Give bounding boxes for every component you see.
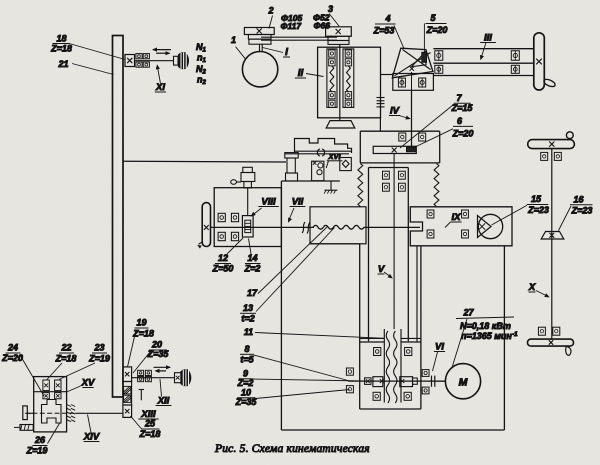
worm box: [310, 207, 366, 244]
gear pair 23: [55, 380, 61, 391]
svg-text:Z=15: Z=15: [451, 103, 474, 113]
gearbox mid line: [34, 391, 67, 393]
gear 6: [407, 147, 417, 152]
stem pulley 1: [259, 44, 261, 52]
slide 7: [373, 146, 416, 153]
foot shaft I: [326, 121, 355, 128]
leader 15: [492, 205, 527, 225]
frame: [280, 181, 282, 430]
cone 5 small: [412, 51, 427, 67]
svg-text:Z=53: Z=53: [373, 26, 395, 36]
leader XIV: [88, 415, 92, 433]
pedestal: [285, 153, 298, 158]
bearing pair XI: [136, 54, 142, 59]
shaft VII: [211, 226, 315, 228]
shaft X: [551, 149, 553, 340]
svg-text:M: M: [459, 376, 468, 388]
gear cluster XIII: [123, 382, 132, 406]
leader 13: [256, 228, 335, 312]
leader 2: [269, 16, 273, 29]
pulley 1: [242, 51, 277, 86]
bearings motor side: [422, 370, 429, 377]
spindle walls: [383, 329, 385, 403]
svg-text:Z=20: Z=20: [426, 25, 448, 35]
leader 21: [72, 64, 114, 75]
leader 27: [453, 319, 468, 366]
gear box XIII top: [123, 367, 132, 382]
svg-text:V: V: [378, 264, 385, 275]
cam base: [285, 153, 349, 155]
bearings IX: [427, 210, 434, 218]
svg-text:I: I: [285, 47, 288, 58]
svg-text:25: 25: [144, 419, 156, 429]
leader 4: [394, 26, 404, 49]
bearings XII: [138, 370, 144, 375]
svg-text:Z=35: Z=35: [147, 349, 170, 359]
bearings feed left: [346, 368, 353, 375]
spring left: [358, 164, 363, 207]
gear 9 box: [365, 378, 371, 385]
ground: [325, 189, 338, 191]
bearings X top: [541, 152, 548, 160]
bevel gear 15: [478, 214, 502, 238]
shaft III rails: [433, 48, 533, 50]
svg-text:XV: XV: [81, 378, 95, 389]
leader 10: [256, 390, 350, 399]
arrows XI: [153, 49, 171, 51]
stop block: [20, 425, 33, 431]
svg-text:Z=19: Z=19: [88, 354, 110, 364]
link rod: [123, 160, 286, 163]
leader VII: [289, 208, 295, 221]
shaft VIII: [247, 188, 249, 216]
shaft I: [339, 44, 341, 120]
svg-text:VIII: VIII: [261, 197, 276, 208]
svg-text:Z=20: Z=20: [1, 353, 23, 363]
svg-text:Φ117: Φ117: [281, 21, 303, 31]
gear box XI: [125, 55, 135, 67]
svg-text:XII: XII: [157, 396, 170, 407]
svg-text:4: 4: [384, 14, 390, 24]
svg-text:N=0,18 кВт: N=0,18 кВт: [460, 321, 511, 331]
capsule III: [534, 33, 545, 90]
bearing box cone: [393, 74, 434, 91]
svg-text:27: 27: [462, 308, 474, 318]
bracket 2: [244, 28, 274, 35]
leader X: [536, 291, 548, 297]
svg-text:24: 24: [7, 343, 18, 353]
svg-text:21: 21: [57, 59, 68, 69]
handle III: [543, 78, 556, 88]
svg-text:Z=2: Z=2: [237, 378, 254, 388]
link II cone: [380, 74, 392, 76]
lever arm: [236, 181, 241, 183]
shaft XI: [135, 60, 175, 62]
lever bar 21: [113, 36, 124, 398]
leader 18: [71, 44, 125, 60]
bearings spindle: [374, 348, 381, 356]
svg-text:11: 11: [244, 327, 253, 337]
bearings V: [383, 171, 390, 179]
mech base: [281, 180, 339, 182]
shaft XIV axis: [25, 412, 74, 414]
svg-text:XI: XI: [155, 82, 165, 93]
gear box VIII: [214, 188, 281, 247]
bracket 3: [326, 27, 352, 37]
leader 23: [59, 363, 95, 380]
svg-text:1: 1: [231, 35, 236, 45]
leader 22: [47, 363, 62, 380]
motor shaft: [438, 380, 446, 382]
clutch II: [377, 97, 385, 99]
svg-text:23: 23: [93, 343, 104, 353]
cam plate: [295, 139, 352, 154]
handle XIV: [23, 406, 28, 420]
capsule X bottom: [528, 339, 574, 346]
svg-text:Z=2: Z=2: [244, 264, 261, 274]
svg-text:t=5: t=5: [240, 355, 254, 365]
column inner wall: [416, 246, 418, 342]
svg-text:8: 8: [244, 344, 249, 354]
svg-text:IV: IV: [390, 106, 400, 117]
column II right: [343, 49, 354, 108]
clutch rod: [379, 118, 381, 131]
leader 12: [227, 238, 243, 254]
motor M: [445, 364, 480, 399]
leader VIII: [252, 208, 262, 216]
housing 7: [360, 130, 439, 132]
svg-text:12: 12: [218, 253, 228, 263]
leader XV: [67, 386, 81, 392]
svg-text:22: 22: [60, 343, 71, 353]
ratchet box: [312, 161, 324, 181]
gear box XIII bottom: [123, 405, 132, 417]
svg-text:Z=18: Z=18: [50, 43, 72, 53]
svg-text:VI: VI: [435, 342, 444, 353]
svg-text:Z=18: Z=18: [55, 354, 77, 364]
gear box XV: [34, 377, 67, 432]
svg-text:13: 13: [243, 303, 253, 313]
leader VI: [433, 352, 438, 371]
feed shaft 8: [348, 380, 445, 382]
bearings II: [329, 50, 335, 57]
column II left: [327, 49, 337, 108]
leader V: [384, 272, 392, 278]
svg-text:п=1365 мин-1: п=1365 мин-1: [461, 331, 518, 341]
leader 24: [20, 355, 44, 396]
cone 4: [392, 48, 433, 78]
clutch XVI: [318, 149, 325, 156]
leader III: [481, 43, 486, 59]
svg-text:Z=19: Z=19: [26, 446, 48, 456]
coupling stub: [413, 378, 418, 384]
leader XII: [160, 379, 162, 397]
leader 19: [128, 330, 137, 367]
leader 14: [249, 239, 252, 255]
capsule VII: [202, 203, 210, 247]
svg-text:Z=23: Z=23: [571, 206, 593, 216]
spring right: [434, 164, 439, 207]
leader 8: [254, 355, 348, 381]
gear teeth XIV: [67, 405, 71, 407]
svg-text:XIV: XIV: [83, 432, 100, 443]
pawl: [326, 161, 328, 169]
tappet: [243, 167, 253, 172]
svg-text:20: 20: [151, 340, 162, 350]
knob XII: [175, 373, 182, 383]
svg-text:17: 17: [247, 288, 258, 298]
arrows XII: [154, 366, 171, 368]
leader II: [306, 74, 324, 77]
gear 16: [541, 232, 564, 240]
bearings X bottom: [538, 327, 545, 335]
shaft V: [393, 154, 395, 330]
coupling VI: [431, 376, 433, 387]
svg-text:IX: IX: [452, 212, 462, 223]
svg-text:Φ66: Φ66: [314, 21, 331, 31]
leader XI: [157, 66, 160, 84]
flexible shaft 11: [386, 331, 389, 403]
leader IX: [445, 222, 451, 228]
box II: [318, 47, 381, 118]
gear cluster 26: [42, 400, 62, 424]
gear pair 22: [43, 380, 49, 391]
svg-text:X: X: [528, 282, 536, 293]
svg-text:18: 18: [56, 34, 66, 44]
fork lever: [140, 390, 142, 401]
svg-text:t=2: t=2: [241, 314, 254, 324]
svg-text:II: II: [298, 68, 304, 79]
shaft XII: [132, 377, 175, 379]
leader IV: [399, 116, 409, 119]
worm: [313, 225, 364, 229]
ring X: [566, 132, 573, 139]
ground rod: [330, 181, 332, 190]
shaft XIV: [75, 412, 123, 414]
leader 7: [400, 105, 453, 148]
springs II: [330, 66, 334, 92]
leader 17: [258, 227, 328, 294]
svg-text:2: 2: [267, 6, 273, 16]
sleeve right: [400, 377, 413, 387]
bearings III: [435, 51, 443, 61]
svg-text:19: 19: [136, 318, 146, 328]
svg-text:14: 14: [247, 253, 257, 263]
shaft IV: [411, 90, 413, 146]
sleeve left: [373, 377, 383, 387]
spindle housing: [310, 243, 360, 245]
svg-text:26: 26: [34, 435, 46, 445]
svg-text:Z=35: Z=35: [235, 397, 258, 407]
svg-text:Z=18: Z=18: [139, 429, 161, 439]
leader 1: [236, 47, 246, 59]
svg-text:Z=50: Z=50: [212, 264, 234, 274]
leader 16: [559, 206, 572, 231]
leader 3: [329, 14, 339, 27]
leader 11: [255, 333, 384, 339]
svg-text:Рис. 5. Схема кинематическая: Рис. 5. Схема кинематическая: [214, 443, 370, 455]
svg-text:VII: VII: [292, 197, 304, 208]
knob XI: [174, 56, 179, 65]
capsule X top: [528, 140, 575, 149]
leader 25: [131, 416, 143, 430]
svg-text:16: 16: [573, 195, 584, 205]
bearings VIII: [218, 213, 225, 221]
leader 5: [423, 24, 425, 53]
leader 6: [413, 129, 453, 148]
valve block: [340, 158, 352, 171]
worm gear VIII: [242, 216, 253, 237]
gear box IX: [410, 207, 512, 246]
svg-text:Z=23: Z=23: [527, 205, 549, 215]
bearings housing 7: [399, 133, 406, 141]
break marks: [302, 222, 310, 234]
leader 20: [133, 352, 150, 373]
gear 5: [422, 52, 427, 62]
leader 26: [48, 423, 61, 444]
leader 9: [253, 379, 366, 381]
svg-text:15: 15: [531, 194, 542, 204]
column V: [369, 167, 409, 169]
svg-text:Z=20: Z=20: [452, 129, 474, 139]
svg-text:III: III: [484, 33, 492, 44]
hook X: [566, 346, 571, 355]
leader I: [263, 48, 284, 53]
capsule VII arrow: [199, 242, 204, 245]
belt: [261, 36, 337, 38]
